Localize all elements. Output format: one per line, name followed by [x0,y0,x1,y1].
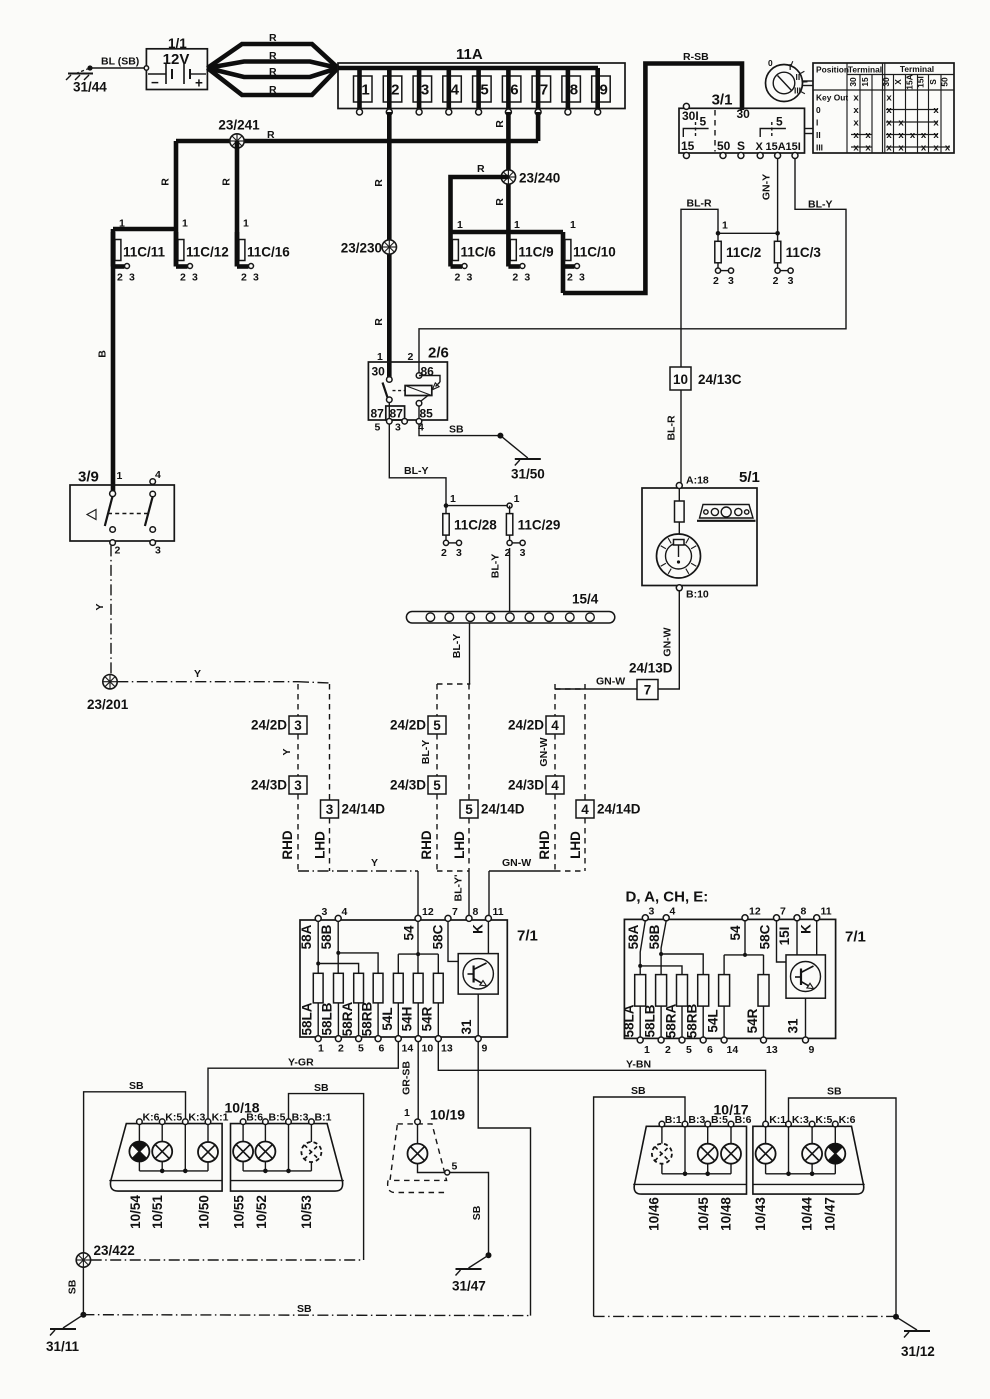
svg-text:x: x [933,130,939,141]
wire SB 23/422 down [82,1267,84,1314]
svg-text:R: R [269,84,277,96]
svg-text:3: 3 [520,547,526,559]
svg-text:1: 1 [182,218,188,230]
lamp 10/43 [756,1144,776,1164]
svg-text:Y: Y [371,857,378,869]
svg-text:BL-Y: BL-Y [490,554,502,579]
svg-text:BL-R: BL-R [666,415,678,440]
svg-text:58LB: 58LB [320,1002,335,1035]
svg-text:11: 11 [493,906,504,918]
svg-text:58LB: 58LB [643,1004,658,1037]
svg-text:Key Out: Key Out [816,93,848,103]
svg-text:x: x [945,143,951,154]
svg-text:2: 2 [241,272,247,284]
svg-text:x: x [921,130,927,141]
svg-text:5: 5 [375,422,381,434]
svg-text:30I: 30I [682,109,699,123]
fuse 3 [413,76,432,102]
svg-text:24/14D: 24/14D [481,802,525,817]
connector 24/14D 3 [329,684,331,800]
resistor element 7/1 [313,973,323,1003]
svg-text:3: 3 [467,272,473,284]
svg-text:BL-Y: BL-Y [420,740,432,765]
resistor element 7/1 [413,973,423,1003]
svg-text:1: 1 [318,1043,324,1055]
svg-text:7: 7 [780,906,786,918]
lamp 10/50 [198,1142,218,1162]
svg-text:R: R [494,198,506,206]
svg-text:4: 4 [155,469,161,481]
svg-text:I: I [789,62,791,72]
svg-text:II: II [816,130,821,140]
wire Y column bottom to 7/1 pin 12 [298,870,418,872]
svg-text:B:6: B:6 [246,1112,263,1124]
relay 85 terminal [421,396,428,402]
svg-text:3: 3 [155,545,161,557]
ground 31/44 [76,68,90,74]
svg-text:7: 7 [452,906,458,918]
svg-text:Y: Y [94,603,106,610]
svg-text:x: x [898,118,904,129]
column RHD/LHD 5 (middle) [437,683,470,685]
ground 31/47 [469,1255,489,1268]
lamp 10/53 (optional) [301,1142,321,1162]
svg-text:x: x [853,143,859,154]
wire 58C to amplifier b [777,921,787,962]
svg-text:6: 6 [510,82,518,99]
svg-text:58A: 58A [299,924,314,949]
connector 24/3D 3 [289,776,307,794]
cluster 10/17 right housing [753,1126,864,1194]
wire 58C to amplifier [448,921,458,961]
svg-text:23/422: 23/422 [94,1243,135,1258]
connector 24/14D 5 [468,684,470,800]
pin circle 7/1 bottom [415,1036,421,1042]
pin circles 10/18 left [137,1119,143,1125]
wire BL-Y bus bar down [469,623,471,684]
svg-text:2: 2 [338,1043,344,1055]
svg-text:x: x [886,143,892,154]
svg-text:2: 2 [773,275,779,287]
svg-text:10: 10 [422,1043,434,1055]
svg-text:K:6: K:6 [839,1114,856,1126]
svg-text:85: 85 [420,407,434,421]
svg-text:Position: Position [816,65,849,75]
svg-text:R: R [160,178,172,186]
wire SB loop left 10/17 [594,1097,685,1316]
wire bundle R x4 battery to fuse box [207,44,338,68]
pin circle 7/1b bottom [700,1037,706,1043]
svg-text:B: B [97,350,109,358]
pin circle 7/1b bottom [658,1037,664,1043]
svg-text:X: X [893,79,903,85]
svg-text:SB: SB [314,1082,329,1094]
svg-text:K:1: K:1 [212,1112,229,1124]
instrument strip inside 5/1 [700,505,754,519]
fuse 7 [532,76,551,102]
svg-text:24/2D: 24/2D [508,718,544,733]
svg-text:15I: 15I [777,927,792,946]
ignition key symbol [766,65,803,102]
svg-text:SB: SB [67,1279,79,1294]
svg-text:54H: 54H [400,1007,415,1032]
bus wire 10/17 left [662,1173,731,1175]
svg-text:15I: 15I [916,76,926,88]
cluster 10/17 left housing [634,1126,746,1194]
svg-text:x: x [853,93,859,104]
bus wire 10/17 right [766,1173,836,1175]
pin circle 7/1b top [814,915,820,921]
lamp 10/52 [255,1142,275,1162]
fuse 1 [354,76,373,102]
svg-text:x: x [853,130,859,141]
svg-text:2: 2 [441,547,447,559]
lamp 10/44 [802,1144,822,1164]
svg-text:SB: SB [297,1303,312,1315]
svg-text:x: x [921,143,927,154]
lamp 10/46 (optional) [652,1144,672,1164]
svg-text:B:10: B:10 [686,589,709,601]
svg-text:K: K [799,924,814,934]
pin circles 10/18 right [240,1119,246,1125]
svg-text:Y: Y [281,748,293,755]
wire GN-W from 5/1 B:10 to 24/13D [658,591,679,689]
svg-text:23/240: 23/240 [519,171,560,186]
wire BL-Y' column bottom to 7/1 pin 8 [437,870,469,872]
svg-text:B:6: B:6 [735,1114,752,1126]
svg-text:58B: 58B [319,924,334,949]
contact X-15A with actuator 5 [760,129,786,138]
svg-text:BL-R: BL-R [687,198,712,210]
wire GN-W 24/2D to 24/3D [554,734,556,776]
svg-text:87: 87 [371,407,385,421]
lamp 10/55 [233,1142,253,1162]
pin circle 7/1 top [315,915,321,921]
switch 3/9 blades [105,496,113,526]
svg-text:3: 3 [294,778,302,793]
svg-text:x: x [865,130,871,141]
svg-text:10/45: 10/45 [696,1197,711,1231]
wire GN-W column bottom to 7/1 pin 11 [555,870,585,872]
svg-text:24/3D: 24/3D [251,778,287,793]
svg-text:BL-Y: BL-Y [451,634,463,659]
relay 86 terminal [418,362,420,373]
svg-text:R: R [221,178,233,186]
svg-text:I: I [816,118,818,128]
amplifier transistor 7/1b [786,955,825,998]
connector 24/14D 4 [584,684,586,800]
svg-text:3: 3 [524,272,530,284]
svg-text:10: 10 [673,372,688,387]
pin circle 7/1 bottom [375,1036,381,1042]
svg-text:5: 5 [776,115,783,129]
resistor element 7/1 [373,973,383,1003]
svg-text:15/4: 15/4 [572,592,599,607]
svg-text:31/50: 31/50 [511,467,545,482]
wire BL-Y 11C/29 to bus bar 15/4 [509,548,511,613]
svg-text:11C/11: 11C/11 [123,245,166,260]
svg-text:12: 12 [422,906,434,918]
svg-text:x: x [933,118,939,129]
svg-text:54: 54 [402,925,417,941]
cluster 10/18 right housing [231,1124,343,1192]
svg-text:S: S [737,139,745,153]
svg-text:10/52: 10/52 [254,1195,269,1229]
svg-text:10/46: 10/46 [647,1197,662,1231]
resistor element 7/1b [635,975,646,1007]
svg-text:2: 2 [512,272,518,284]
svg-text:3: 3 [728,275,734,287]
fuse 5 [473,76,492,102]
pin circle 7/1 bottom [435,1036,441,1042]
wire Y 24/2D to 24/3D [297,734,299,776]
svg-text:30: 30 [848,77,858,87]
svg-text:3: 3 [421,82,429,99]
svg-text:x: x [933,105,939,116]
svg-text:1: 1 [361,82,369,99]
fuse 4 [443,76,462,102]
svg-text:10/47: 10/47 [823,1197,838,1231]
svg-text:7: 7 [644,683,652,698]
wire R from fuse 7 down [536,112,541,141]
wire pins-1 link 11C/2 11C/3 [718,232,778,234]
svg-text:4: 4 [551,718,559,733]
cluster 10/18 left housing [110,1124,222,1192]
svg-text:3: 3 [326,802,334,817]
svg-text:Terminal: Terminal [848,65,882,75]
svg-text:SB: SB [449,424,464,436]
svg-text:5: 5 [686,1044,692,1056]
svg-text:x: x [933,143,939,154]
bus wire 10/18 right [243,1170,311,1172]
pin circle 7/1b top [663,915,669,921]
connector 24/2D 4 [554,684,556,716]
svg-text:30: 30 [881,77,891,87]
svg-text:1: 1 [514,219,520,231]
svg-text:Y: Y [194,668,201,680]
lamp 10/19 [417,1125,419,1144]
svg-text:1: 1 [644,1044,650,1056]
wire BL-R to 24/13C [681,209,718,367]
svg-text:2: 2 [117,272,123,284]
svg-text:14: 14 [402,1043,414,1055]
svg-text:15A: 15A [766,141,786,153]
wire SB 10/19 to ground 31/47 [450,1173,489,1256]
wire 54 feed [417,921,419,973]
fuse 8 [562,76,581,102]
ignition position terminal table [813,63,954,153]
svg-text:R: R [269,50,277,62]
svg-text:III: III [816,143,823,153]
wire SB 7/1 pin9 to ground bus [478,1042,530,1316]
relay coil [405,386,432,396]
svg-text:5: 5 [700,115,707,129]
svg-text:GN-W: GN-W [502,857,531,869]
wire BL-Y from 15I loop to relay coil [419,159,846,363]
fuse 6 [502,76,521,102]
wire lamp stubs 10/18 left [138,1125,140,1142]
svg-text:31/44: 31/44 [73,80,107,95]
svg-text:86: 86 [421,365,435,379]
relay 30 contact [387,377,393,383]
svg-text:B:5: B:5 [269,1112,286,1124]
svg-text:5: 5 [433,718,441,733]
node 23/240 [501,170,515,184]
pin circle 7/1b top [794,915,800,921]
svg-text:BL-Y': BL-Y' [453,875,465,902]
svg-text:R: R [269,32,277,44]
wire BL (SB) battery negative [90,67,146,69]
pin circle 7/1 top [335,915,341,921]
wire K to amplifier [487,921,489,953]
svg-text:+: + [195,76,203,91]
svg-text:3/1: 3/1 [712,92,733,109]
svg-text:24/13C: 24/13C [698,372,742,387]
svg-text:54L: 54L [706,1009,721,1032]
wire B from 11C/11 down to switch 3/9 [111,267,116,494]
svg-text:7: 7 [540,82,548,99]
wire Y-GR 7/1 pin14 to 10/18 K:1 [208,1042,398,1119]
wire 58A feed [317,921,319,973]
svg-text:11C/12: 11C/12 [186,245,229,260]
svg-text:58C: 58C [758,924,773,949]
wire lamp stubs 10/17 right [765,1127,767,1144]
svg-text:GN-Y: GN-Y [761,174,773,200]
svg-text:50: 50 [940,77,950,87]
svg-text:30: 30 [372,365,386,379]
svg-text:x: x [886,118,892,129]
svg-text:K:3: K:3 [188,1112,205,1124]
svg-text:SB: SB [827,1086,842,1098]
svg-text:10/44: 10/44 [800,1197,815,1231]
column RHD/LHD 4 (right) [555,688,585,690]
resistor element 7/1b [719,975,730,1007]
svg-text:S: S [928,79,938,85]
wire Y node to RHD LHD column [117,681,298,683]
resistor element 7/1 [334,973,344,1003]
svg-text:2: 2 [713,275,719,287]
connector 24/3D 4 [546,776,564,794]
svg-text:8: 8 [570,82,578,99]
svg-text:15A: 15A [905,74,915,89]
svg-text:10/19: 10/19 [430,1107,465,1123]
svg-text:B:5: B:5 [711,1114,728,1126]
svg-text:1: 1 [119,218,125,230]
wire BL-Y relay 87 to 11C/28 [389,424,446,506]
svg-text:1: 1 [570,219,576,231]
svg-text:3: 3 [322,906,328,918]
svg-text:10/50: 10/50 [197,1195,212,1229]
svg-text:x: x [886,130,892,141]
wire 10/19 to pin 5 [418,1164,445,1173]
svg-text:58C: 58C [431,924,446,949]
svg-text:11C/29: 11C/29 [518,518,561,533]
svg-text:10/55: 10/55 [232,1195,247,1229]
svg-text:8: 8 [473,906,479,918]
svg-text:1: 1 [117,470,123,482]
lamp 10/47 [825,1144,845,1164]
lamp 10/54 [129,1142,149,1162]
resistor element 7/1b [677,975,688,1007]
svg-text:14: 14 [727,1044,739,1056]
resistor element 7/1 [393,973,403,1003]
wire lamp stubs 10/17 left [661,1127,663,1144]
svg-text:1: 1 [450,493,456,505]
svg-text:4: 4 [551,778,559,793]
wire R-SB to ignition switch 3/1 [563,64,742,294]
svg-text:6: 6 [379,1043,385,1055]
svg-text:RHD: RHD [280,830,295,859]
wire SB loop right 10/17 [789,1098,897,1317]
ground 31/12 [896,1317,917,1330]
svg-text:GN-W: GN-W [538,737,550,766]
wire node 23/241 down to 11C/16 [235,141,240,229]
svg-text:K:5: K:5 [165,1112,182,1124]
pin circle 7/1b top [642,915,648,921]
pin circle 7/1 bottom [356,1036,362,1042]
svg-text:R: R [269,66,277,78]
svg-text:2: 2 [567,272,573,284]
svg-text:R: R [267,129,275,141]
svg-text:RHD: RHD [537,830,552,859]
wire GN-W 24/13D to RHD column [555,688,637,690]
wire SB ground bus right [594,1315,896,1317]
svg-text:2: 2 [408,351,414,363]
wire R from fuse 6 down [506,112,511,232]
svg-text:A:18: A:18 [686,475,709,487]
svg-text:15I: 15I [786,141,801,153]
svg-text:11C/16: 11C/16 [247,245,290,260]
svg-text:R: R [494,120,506,128]
wire lamp stubs 10/18 right [242,1125,244,1142]
node 23/230 [382,240,396,254]
svg-text:1: 1 [377,351,383,363]
node 23/201 [103,675,117,689]
svg-text:10/51: 10/51 [150,1195,165,1229]
svg-text:x: x [886,105,892,116]
svg-text:11: 11 [821,906,832,918]
wire 58B feed b [661,921,666,975]
pin circle 7/1b bottom [761,1037,767,1043]
svg-text:50: 50 [717,139,731,153]
pin circle 7/1b bottom [679,1037,685,1043]
node 23/422 [76,1253,90,1267]
pin circle 7/1 top [485,915,491,921]
svg-text:B:1: B:1 [315,1112,332,1124]
svg-text:23/230: 23/230 [341,241,382,256]
svg-text:23/201: 23/201 [87,697,129,712]
fuse inside 5/1 [675,501,685,522]
svg-text:11C/2: 11C/2 [726,245,761,260]
clock dial inside 5/1 [657,534,701,578]
wire dash-dot 23/422 to right loop [91,1259,364,1261]
svg-text:4: 4 [342,906,348,918]
svg-text:1: 1 [457,219,463,231]
svg-text:3: 3 [395,422,401,434]
svg-text:24/14D: 24/14D [597,802,641,817]
svg-text:2: 2 [391,82,399,99]
wire SB relay to ground 31/50 [419,424,500,436]
pin circle 7/1 bottom [395,1036,401,1042]
lamp 10/48 [721,1144,741,1164]
svg-text:24/13D: 24/13D [629,661,673,676]
svg-text:11C/28: 11C/28 [454,518,497,533]
svg-text:3: 3 [192,272,198,284]
svg-text:11C/6: 11C/6 [461,245,497,260]
svg-text:58RA: 58RA [664,1003,679,1038]
lamp 10/45 [698,1144,718,1164]
svg-text:54R: 54R [420,1006,435,1031]
